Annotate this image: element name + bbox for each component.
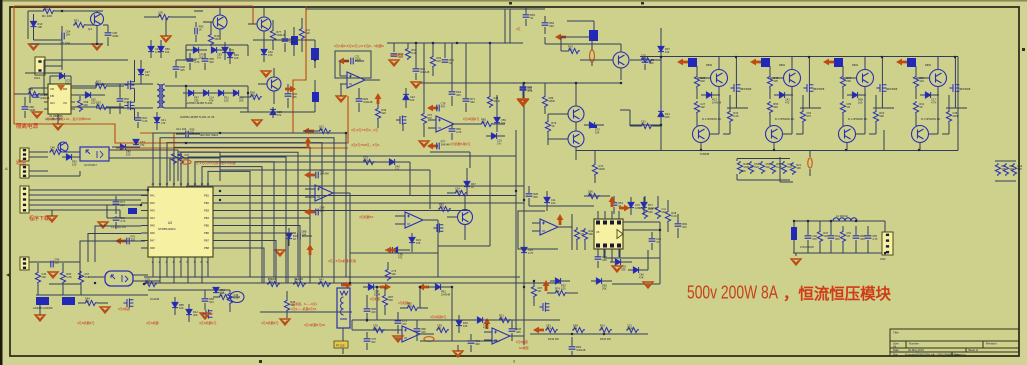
transistor Q14 [857,70,874,87]
U6 pins [598,211,619,257]
resistor R68 [95,104,108,109]
U3 bottom pin stubs [153,257,208,264]
orange loop L1 [590,50,595,62]
svg-text:4元S——机器6元S4: 4元S——机器6元S4 [291,307,317,311]
diode D22 [658,111,664,116]
resistor R36 [873,110,878,123]
frame tick bottom [259,360,262,363]
svg-text:102: 102 [700,105,705,109]
capacitor C34 [569,347,576,349]
svg-text:2.2K: 2.2K [250,94,256,98]
capacitor C10 [285,94,292,96]
resistor R46 [531,285,536,298]
svg-text:1N5408: 1N5408 [700,152,710,156]
wire U9A [394,329,402,331]
diode D42 [154,117,160,122]
red gnd G23 [200,313,210,319]
svg-text:4元S机器6元: 4元S机器6元 [261,320,278,325]
wire tl top rail4 [253,39,315,41]
wire q6 v1 [376,287,378,320]
U7 internals [111,275,128,282]
capacitor C43 [853,236,860,238]
wire bl h3 [29,199,141,201]
svg-text:400 50V 50HZ: 400 50V 50HZ [200,133,218,137]
resistor R32 [913,75,918,88]
red gnd G11 [419,141,429,147]
svg-text:20K: 20K [516,330,521,334]
wire q2 stub3 [489,43,491,95]
diode D9 [148,46,154,51]
op-amp U5B [405,212,423,228]
svg-text:47K: 47K [441,105,446,109]
driver IC U6 [594,219,623,249]
wire mid v1 [219,152,221,181]
wire rs v2 [544,37,546,44]
red gnd G22 [393,336,403,342]
red arrow P25 [427,143,438,150]
capacitor C22 [316,209,318,216]
resistor R51 [626,327,639,332]
svg-text:Revision: Revision [986,342,997,346]
connector J3 [20,165,29,178]
svg-text:100R: 100R [627,327,633,331]
wire T1 sec [165,85,186,87]
svg-text:4.7K: 4.7K [872,237,878,241]
resistor R64 [817,230,822,243]
svg-text:4.7K: 4.7K [43,8,49,12]
svg-text:2.2K: 2.2K [456,130,462,134]
resistor R45 [665,210,670,223]
wire opto right [109,149,178,151]
svg-text:330: 330 [475,342,480,346]
capacitor C35 [51,261,53,268]
resistor R5 [208,33,213,46]
svg-text:472: 472 [437,327,442,331]
red arrow P5 [304,172,315,179]
capacitor C24 [642,60,649,62]
wire q2 stub1 [393,43,395,52]
svg-text:47K: 47K [639,276,644,280]
transistor Q7 [613,52,629,68]
svg-text:104: 104 [165,50,170,54]
svg-text:102: 102 [41,275,46,279]
resistor R14 [421,112,426,125]
frame tick top [509,2,512,5]
capacitor C44 [865,236,872,238]
svg-text:6A保险: 6A保险 [519,345,529,350]
wire Q15 [846,125,848,127]
capacitor C4 [117,99,124,101]
capacitor C12 [113,202,120,204]
resistor R35 [800,110,805,123]
diode D23 [589,122,594,128]
resistor R57 [218,294,231,299]
svg-text:10K: 10K [220,291,225,295]
wire C5 [314,80,316,92]
resistor R48 [545,327,558,332]
svg-text:Number: Number [909,342,919,346]
svg-text:20K: 20K [239,99,244,103]
capacitor C61 [437,143,439,150]
wire u6 v2 [647,250,649,270]
svg-text:4元机器S用6元: 4元机器S用6元 [450,141,470,146]
wire sec bus [186,85,248,87]
resistor R20 [438,206,451,211]
svg-text:1K: 1K [319,281,322,285]
op-amp U6A [540,219,558,235]
wire U7 [88,276,105,278]
resistor R31 [840,101,845,114]
svg-text:4.7K: 4.7K [546,327,552,331]
wire CT1 [342,328,344,341]
svg-text:100R: 100R [635,206,641,210]
diode D25 [779,92,784,98]
svg-text:PB1: PB1 [204,194,209,198]
red up arrow P24 [375,93,382,104]
capacitor C54 [413,69,420,71]
wire mid row2 [220,155,352,157]
wire U1 left [30,87,44,89]
diode D33 [555,278,560,284]
wire Q6 [464,196,466,209]
diode D21 [658,46,664,51]
svg-text:CN2: CN2 [880,257,886,261]
diode D45 [211,47,216,53]
svg-text:10K: 10K [588,232,593,236]
resistor R74 [227,292,232,305]
wire q6 v2 [419,287,421,308]
wire mid v4 [489,156,491,246]
svg-text:4.7K: 4.7K [194,60,200,64]
resistor R56 [144,281,157,286]
svg-text:100: 100 [858,101,863,105]
wire J6 [884,221,886,232]
svg-text:100R: 100R [455,190,461,194]
resistor RC0 [995,163,1000,176]
red gnd G8 [98,222,108,228]
svg-text:PA2: PA2 [150,201,155,205]
wire Q14 c [864,57,866,70]
diode D13 [66,154,71,160]
wire Q2 [203,21,213,23]
svg-text:L2 100UH: L2 100UH [836,214,848,218]
resistor R70 [430,55,435,68]
svg-text:47K: 47K [483,326,488,330]
svg-text:D882: D882 [779,64,786,67]
resistor RC2 [1011,163,1016,176]
svg-text:472: 472 [785,101,790,105]
red gnd G12 [518,99,528,105]
resistor R23 [640,123,653,128]
diode D32 [633,267,638,273]
capacitor C36 [127,238,129,245]
connector J2 [20,148,29,161]
red wire comm [116,147,348,149]
CT1 winding [340,291,348,319]
svg-text:220: 220 [754,165,759,169]
svg-text:472: 472 [161,121,166,125]
svg-text:D882: D882 [925,64,932,67]
diode D10 [158,46,164,51]
diode D7 [218,90,223,96]
wire U6 bottom [603,249,605,258]
svg-text:通信: 通信 [16,159,26,166]
red arrow P18 [115,238,126,245]
wire C23 [561,36,589,38]
resistor R75 [592,163,597,176]
wire filt v [884,221,886,232]
wire loop U6A [518,211,558,249]
diode D40 feedback [59,73,64,79]
resistor R2 [73,22,86,27]
svg-text:47K: 47K [50,149,55,153]
wire mid h1 [178,151,220,153]
diode D2 [85,92,90,98]
svg-text:IRFP4668: IRFP4668 [813,88,825,91]
diode D16 [491,133,496,139]
wire Q1 collector [96,11,98,13]
svg-text:20K: 20K [846,79,851,83]
diode D48 [477,317,482,323]
svg-text:CN1: CN1 [34,76,40,80]
resistor R66 [27,91,40,96]
svg-text:10K: 10K [234,56,239,60]
svg-text:1N4148: 1N4148 [320,172,330,176]
resistor R15 [480,121,493,126]
resistor R65 [840,230,845,243]
svg-text:2.2K: 2.2K [66,275,72,279]
red up arrow P22 [484,318,491,329]
svg-text:104: 104 [65,82,70,86]
svg-text:100R: 100R [598,167,604,171]
red right arrow P20 [380,284,391,291]
mosfet M9 [539,302,549,311]
wire U5B [395,215,405,217]
capacitor C56 [395,321,402,323]
svg-text:220: 220 [700,79,705,83]
resistor R67 [95,83,108,88]
svg-text:U1 OB2535: U1 OB2535 [49,114,63,118]
svg-text:10K: 10K [649,61,654,65]
optocoupler U2 [80,147,109,161]
capacitor C20 [520,87,527,89]
wire top bus right [640,56,958,58]
svg-text:U2 PC817: U2 PC817 [84,163,97,167]
red up arrow P7 [307,244,314,255]
wire Q10 c [718,57,720,70]
svg-text:10K: 10K [860,237,865,241]
op-amp U9B [492,328,510,344]
svg-text:D882: D882 [852,64,859,67]
svg-text:330: 330 [621,268,626,272]
wire left bank [779,157,781,182]
wire U5A drop [349,193,351,277]
diode D34 [596,278,601,284]
red gnd G24 [453,351,463,357]
wire mid h6 [305,155,516,157]
resistor R33 [913,101,918,114]
svg-text:Drawn by:: Drawn by: [954,352,966,356]
transistor Q9 [568,131,584,147]
svg-text:20K: 20K [533,195,538,199]
isolation region red border [14,6,348,148]
resistor R small left [790,162,795,175]
wire q6 long1 [352,319,560,321]
svg-text:6元S机器: 6元S机器 [118,307,130,311]
svg-text:PA4: PA4 [150,216,155,220]
transistor Q12 [784,70,801,87]
resistor R1 [42,8,55,13]
wire MCU right nest [220,195,516,197]
svg-text:4元机器，S——6元4: 4元机器，S——6元4 [291,302,318,306]
svg-text:4元，6元S机器4元用: 4元，6元S机器4元用 [328,258,356,263]
svg-text:330: 330 [209,60,214,64]
svg-text:PA7: PA7 [150,239,155,243]
wire long mid A [160,132,346,134]
wire comm row3 [79,171,81,176]
resistor R11 [178,152,183,165]
wire mosfet drain [134,60,136,82]
wire mid h7 [438,245,490,247]
capacitor C21 [316,172,318,179]
wire comm [29,151,48,153]
wire bl bottom2 [49,283,81,285]
wire q2 v5 [469,152,471,168]
wire Q4 [258,83,267,85]
svg-text:4.7K: 4.7K [527,89,533,93]
svg-text:102: 102 [410,98,415,102]
red up arrow P14 [557,214,564,225]
diode D17 [389,159,394,165]
svg-text:LM358 LM358 TL431 21 25: LM358 LM358 TL431 21 25 [180,115,215,119]
diode D26 [852,92,857,98]
svg-text:Q1: Q1 [88,27,92,31]
wire bottom long [352,319,560,321]
wire M3 [808,57,810,84]
svg-text:Title: Title [893,331,899,335]
svg-text:100R: 100R [112,34,118,38]
U6 pin pads [596,221,621,248]
wire mid h2 [170,157,220,159]
wire bl v1 [119,210,121,218]
resistor R22 [640,57,653,62]
wire right bus mid [576,150,958,152]
ground G3 [53,124,63,130]
svg-text:105: 105 [126,153,131,157]
resistor R52 [35,271,40,284]
diode D28 [521,247,527,252]
wire q6 h2 [352,329,394,331]
svg-text:4.7K: 4.7K [931,101,937,105]
resistor R17 [362,159,375,164]
red gnd G18 [791,259,801,265]
transistor Q11 [693,126,710,143]
resistor R34 [727,110,732,123]
svg-text:AO3400 AO3400: AO3400 AO3400 [33,306,53,310]
transistor Q2 [213,15,227,29]
U1 pin stubs [44,88,75,109]
wire U4B [428,119,436,121]
capacitor C1 [62,33,64,40]
resistor R19 [385,268,390,281]
diode D18 [464,181,470,186]
svg-text:220: 220 [96,104,101,108]
wire u6 h1 [186,185,524,187]
red gnd G15 [100,307,110,313]
svg-text:104: 104 [588,193,593,197]
orange fuse F1 [808,158,812,168]
transistor Q10 [711,70,728,87]
resistor R73 [372,327,385,332]
op-amp U9A [402,326,420,342]
svg-text:100: 100 [481,121,486,125]
diode D8 [233,90,238,96]
svg-text:GN: GN [50,101,55,105]
wire bottom long2 [420,340,500,342]
red gnd G14 [48,272,58,278]
diode D35 [172,302,178,307]
blue cap C23 [589,30,598,41]
svg-text:102: 102 [501,121,506,125]
resistor R69 [487,95,492,108]
svg-text:47K: 47K [1017,167,1022,171]
wire U5A [305,188,315,190]
svg-text:PB2: PB2 [204,201,209,205]
svg-text:330: 330 [773,105,778,109]
wire rs h1 [630,124,661,126]
svg-text:104: 104 [66,33,71,37]
red arrow P21 [418,284,429,291]
transistor Q6 [458,210,473,225]
svg-text:File:: File: [893,352,898,356]
ground G1 [29,44,39,50]
wire mid drop [509,9,511,43]
svg-text:100: 100 [665,50,670,54]
orange oval fb [424,337,434,342]
svg-text:220: 220 [371,310,376,314]
svg-text:PB7: PB7 [204,239,209,243]
svg-text:1N4148: 1N4148 [96,83,106,87]
svg-text:100R: 100R [548,99,554,103]
diode D47 [494,117,500,122]
capacitor C59 [202,299,209,301]
diode D27 [925,92,930,98]
transistor Q5 [58,142,68,152]
svg-text:1K: 1K [530,16,533,20]
diode D19 [392,247,397,253]
transistor Q3 [257,17,271,31]
wire mid h8 [350,252,438,254]
red gnd G20 [389,60,399,66]
red arrow P4 [303,128,314,135]
svg-text:3: 3 [513,360,515,364]
svg-text:105: 105 [180,68,185,72]
capacitor C9 [282,39,289,41]
diode D24 [706,92,711,98]
IC U1 viper [48,84,71,114]
resistor R72 [498,317,511,322]
svg-text:20K: 20K [319,128,324,132]
resistor R50 [599,327,612,332]
mosfet M12 [396,115,406,124]
wire u6 h4 [612,283,660,285]
svg-text:220: 220 [381,111,386,115]
ground G2 [92,44,102,50]
resistor R58 [284,299,289,312]
svg-text:20K: 20K [665,115,670,119]
current transformer CT1 [337,288,350,328]
red right arrow P19 [341,282,352,289]
